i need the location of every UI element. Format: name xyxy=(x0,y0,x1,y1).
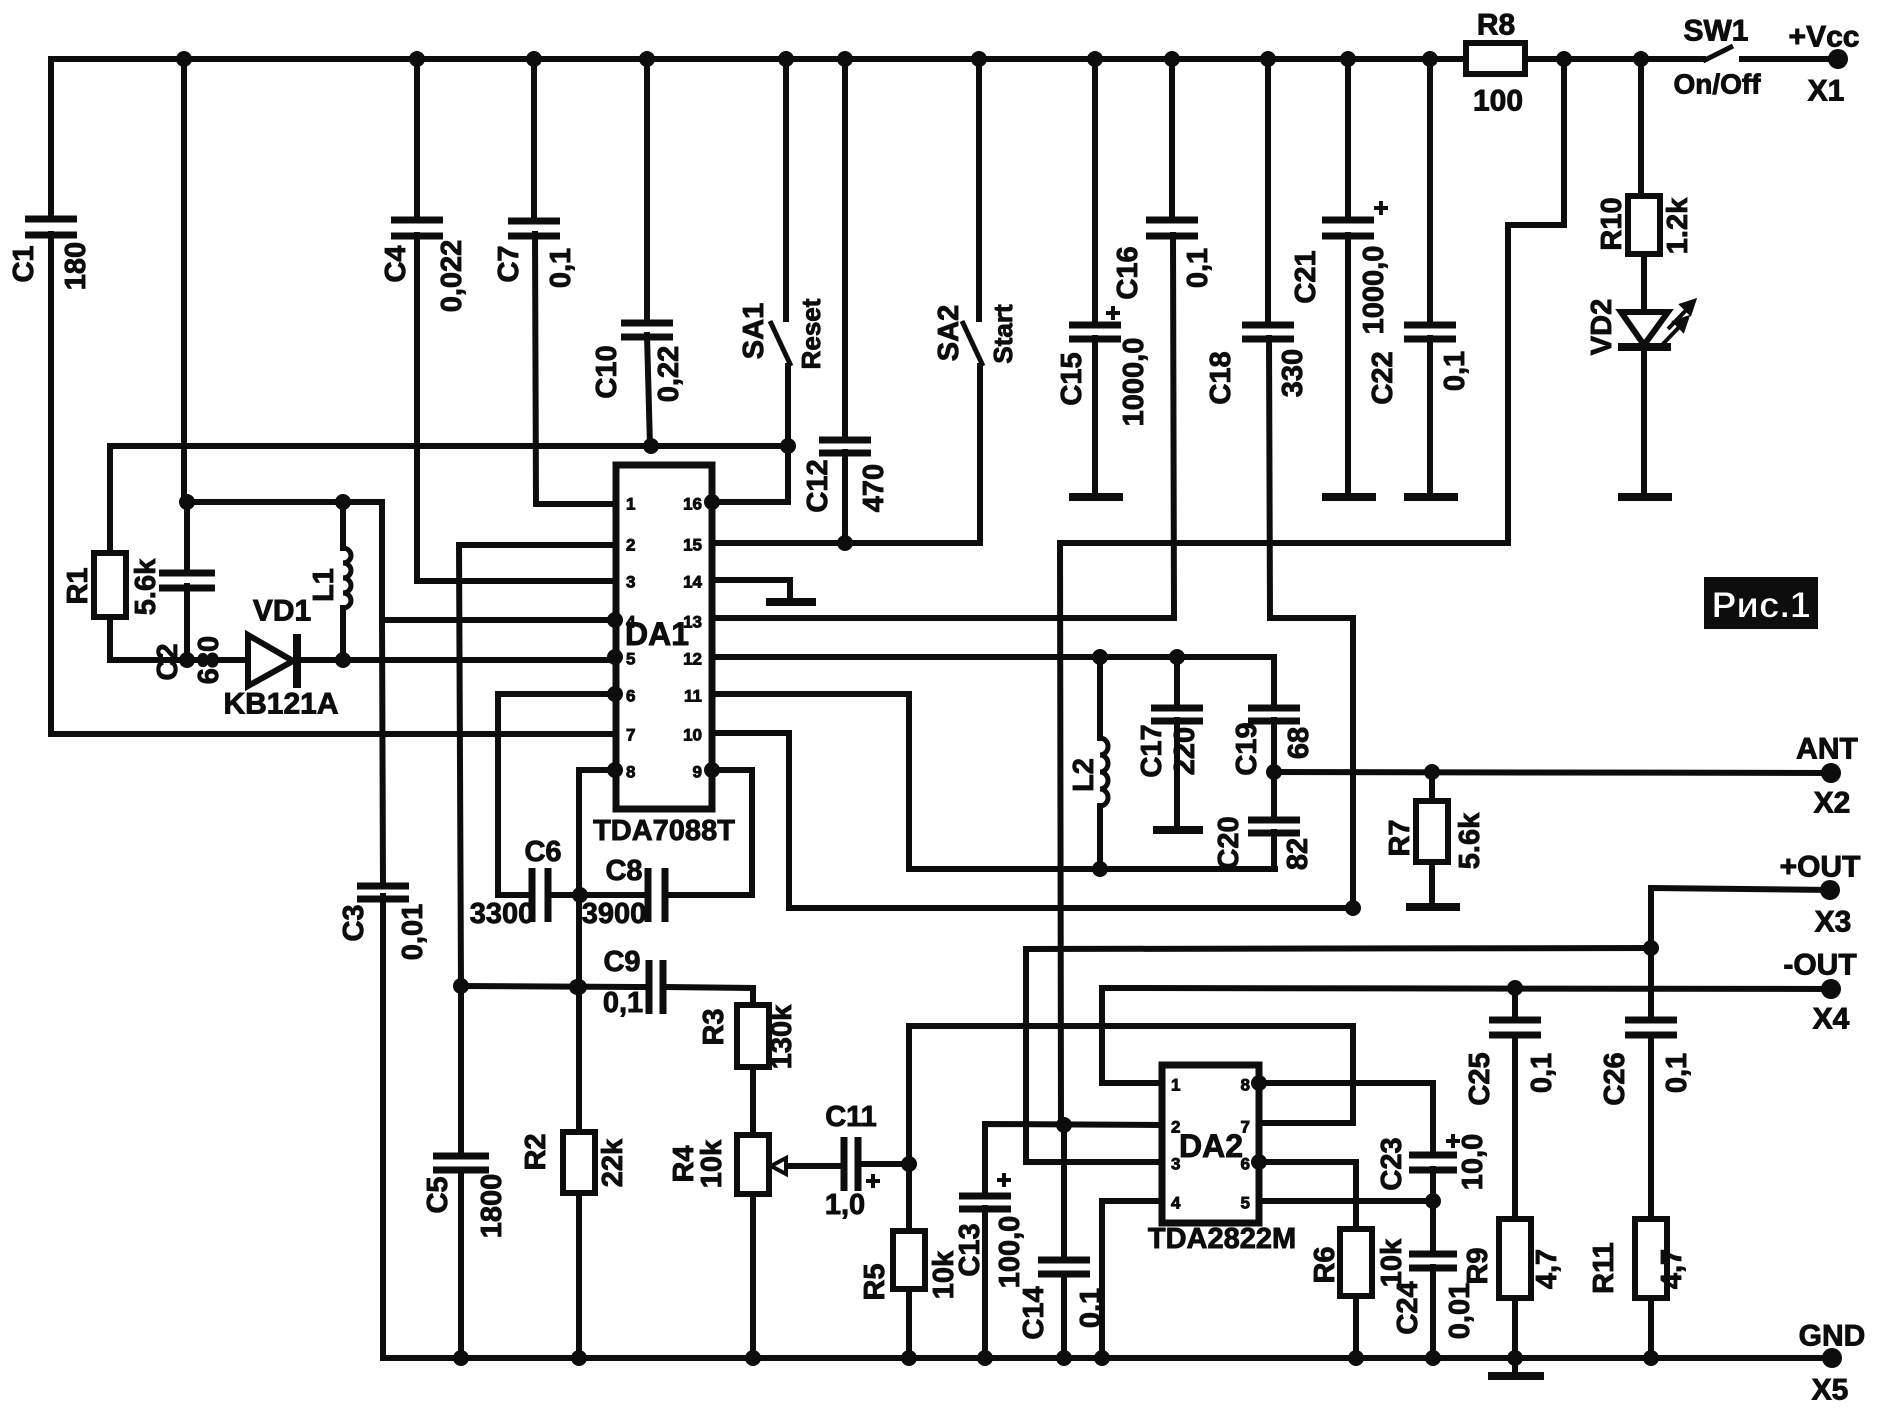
svg-text:R11: R11 xyxy=(1588,1242,1620,1294)
svg-text:1: 1 xyxy=(626,495,635,514)
capacitor C2 xyxy=(159,573,215,588)
resistor R2 xyxy=(563,1132,595,1193)
wire C20 leads xyxy=(1271,772,1277,818)
svg-text:4,7: 4,7 xyxy=(1656,1249,1688,1289)
svg-text:C21: C21 xyxy=(1290,250,1322,303)
svg-text:0,1: 0,1 xyxy=(1182,248,1214,288)
wire R5 top lead xyxy=(906,1164,912,1231)
svg-text:TDA7088T: TDA7088T xyxy=(593,815,735,847)
wire C12 column top xyxy=(842,59,848,440)
svg-text:0,1: 0,1 xyxy=(1526,1053,1558,1093)
wire C14 column xyxy=(1061,1125,1067,1258)
svg-text:ANT: ANT xyxy=(1796,733,1858,766)
wire VD1 row left xyxy=(110,657,247,663)
svg-text:C3: C3 xyxy=(338,904,370,941)
resistor R7 xyxy=(1416,801,1448,862)
wire C12 bottom lead xyxy=(842,452,848,543)
svg-text:14: 14 xyxy=(683,573,702,592)
C17 ground bar xyxy=(1153,826,1203,834)
svg-text:5.6k: 5.6k xyxy=(130,558,162,615)
wire C1 column bottom to pin7 line xyxy=(51,234,615,734)
svg-text:0,1: 0,1 xyxy=(1075,1288,1107,1328)
resistor R8 xyxy=(1466,43,1525,74)
wire C14 bottom lead xyxy=(1061,1274,1067,1358)
op-amp/IC DA1 TDA7088T xyxy=(616,465,712,809)
wire R7 bottom lead xyxy=(1429,862,1435,907)
wire C25 top lead xyxy=(1512,988,1518,1018)
wire C13 bottom lead xyxy=(982,1208,988,1358)
wire DA1 pin15 to SA2 bottom xyxy=(712,366,980,543)
capacitor C5 xyxy=(433,1156,489,1170)
svg-text:0,01: 0,01 xyxy=(1444,1283,1476,1339)
resistor R3 xyxy=(737,1005,769,1067)
svg-text:SA2: SA2 xyxy=(933,305,965,361)
wire C24 bottom lead xyxy=(1430,1267,1436,1358)
resistor R6 xyxy=(1340,1229,1372,1296)
capacitor C26 xyxy=(1625,1020,1677,1035)
wire L1 bottom lead xyxy=(340,608,346,660)
wire DA2 pin1 to -OUT xyxy=(1102,988,1831,1083)
svg-text:11: 11 xyxy=(684,687,702,706)
wire ANT row xyxy=(1274,772,1831,773)
wire C5 bottom lead xyxy=(458,1170,464,1358)
svg-text:C26: C26 xyxy=(1599,1052,1631,1105)
wire C8 to pin9 riser xyxy=(667,770,752,895)
svg-text:0,1: 0,1 xyxy=(545,248,577,288)
svg-text:C25: C25 xyxy=(1464,1052,1496,1105)
svg-text:330: 330 xyxy=(1277,349,1309,397)
wire SA2 column top xyxy=(976,59,982,319)
switch SA1 lever xyxy=(770,321,791,366)
wire C9 to R3 xyxy=(666,987,753,1005)
wire DA1 pin2 column xyxy=(459,545,615,986)
svg-text:VD2: VD2 xyxy=(1586,299,1618,355)
svg-text:3: 3 xyxy=(1171,1155,1180,1174)
svg-text:3900: 3900 xyxy=(582,898,647,930)
wire R8 output jog xyxy=(1060,59,1564,1124)
svg-text:C14: C14 xyxy=(1018,1286,1050,1339)
svg-text:-OUT: -OUT xyxy=(1783,949,1856,982)
capacitor C20 xyxy=(1248,820,1300,833)
svg-text:5: 5 xyxy=(1241,1194,1250,1213)
capacitor C22 xyxy=(1404,325,1456,339)
wire C15 column bottom xyxy=(1092,338,1098,497)
svg-text:X2: X2 xyxy=(1814,787,1851,820)
C22 ground bar xyxy=(1404,493,1458,501)
svg-text:22k: 22k xyxy=(597,1138,629,1187)
wire R2 bottom lead xyxy=(576,1193,582,1358)
svg-text:X3: X3 xyxy=(1815,906,1852,939)
switch SA2 lever xyxy=(962,321,983,366)
svg-text:SA1: SA1 xyxy=(738,303,770,359)
svg-text:C24: C24 xyxy=(1392,1281,1424,1334)
svg-text:R2: R2 xyxy=(520,1133,552,1170)
svg-text:R1: R1 xyxy=(62,567,94,604)
wire DA1 pin6 elbow xyxy=(498,694,615,895)
svg-text:TDA2822M: TDA2822M xyxy=(1148,1223,1296,1255)
wire C17 bottom lead xyxy=(1174,720,1180,830)
wire R6 bottom lead xyxy=(1353,1296,1359,1358)
svg-text:10: 10 xyxy=(683,726,702,745)
svg-text:R8: R8 xyxy=(1477,9,1515,42)
capacitor C12 xyxy=(819,440,871,453)
svg-text:C11: C11 xyxy=(825,1101,877,1133)
resistor R9 xyxy=(1499,1219,1531,1298)
wire top rail switch to X1 xyxy=(1742,56,1838,62)
svg-text:7: 7 xyxy=(626,726,635,745)
wire C2 node to L1 top and riser xyxy=(187,502,382,620)
wire C11 to R5 node xyxy=(861,1161,909,1167)
svg-text:1.2k: 1.2k xyxy=(1662,197,1694,254)
capacitor C15 xyxy=(1069,325,1121,339)
svg-text:4: 4 xyxy=(626,613,636,632)
capacitor C24 xyxy=(1409,1254,1457,1268)
wire L1 top lead xyxy=(340,502,346,548)
wire C26 top lead xyxy=(1648,948,1654,1018)
svg-text:C13: C13 xyxy=(954,1223,986,1276)
capacitor C7 xyxy=(508,221,560,236)
wire C2 top lead xyxy=(184,502,190,571)
svg-text:C5: C5 xyxy=(422,1176,454,1213)
svg-text:100,0: 100,0 xyxy=(994,1216,1026,1289)
svg-text:680: 680 xyxy=(193,636,225,684)
svg-text:C8: C8 xyxy=(605,855,642,887)
svg-text:7: 7 xyxy=(1241,1118,1250,1137)
wire R2 top lead xyxy=(576,987,582,1132)
wire R10 top lead xyxy=(1638,59,1644,194)
wire DA1 pin12 tank row xyxy=(712,657,1274,706)
inductor L1 xyxy=(343,548,351,608)
wire +OUT stub xyxy=(1651,888,1830,948)
svg-text:R9: R9 xyxy=(1462,1247,1494,1284)
svg-text:1: 1 xyxy=(1171,1076,1180,1095)
resistor R1 xyxy=(94,553,126,617)
wire R7 top lead xyxy=(1429,772,1435,801)
R7 ground bar xyxy=(1406,903,1460,911)
svg-text:C19: C19 xyxy=(1231,722,1263,775)
capacitor C1 xyxy=(25,219,77,235)
svg-text:X1: X1 xyxy=(1808,75,1845,108)
svg-text:68: 68 xyxy=(1283,727,1315,759)
wire C10 column bottom xyxy=(647,335,650,446)
wire R1 bottom lead xyxy=(107,617,113,660)
svg-text:6: 6 xyxy=(626,687,635,706)
wire C18 column to corner xyxy=(1269,338,1353,908)
resistor R5 xyxy=(893,1231,925,1289)
wire C3 column xyxy=(382,620,383,884)
svg-text:+OUT: +OUT xyxy=(1780,851,1861,884)
svg-text:5: 5 xyxy=(626,650,635,669)
svg-text:0,1: 0,1 xyxy=(603,987,643,1019)
wire R11 bottom lead xyxy=(1648,1298,1654,1358)
wire R1 top node to SA1/C10 node xyxy=(110,446,788,553)
svg-text:C16: C16 xyxy=(1112,246,1144,299)
wire bottom GND rail xyxy=(383,1355,1832,1361)
svg-text:L1: L1 xyxy=(308,568,340,602)
wire DA1 pin8 column xyxy=(579,770,615,987)
svg-text:0,01: 0,01 xyxy=(397,904,429,960)
capacitor C25 xyxy=(1489,1020,1541,1035)
wire C21 column bottom xyxy=(1345,235,1351,497)
C21 ground bar xyxy=(1322,493,1376,501)
wire L2 bottom lead xyxy=(1097,806,1103,869)
svg-text:C10: C10 xyxy=(591,345,623,398)
wire C15 column top xyxy=(1092,59,1098,325)
svg-text:4,7: 4,7 xyxy=(1531,1249,1563,1289)
wire pin16 riser xyxy=(712,446,788,502)
svg-text:100: 100 xyxy=(1473,85,1523,118)
capacitor C21 xyxy=(1322,220,1374,236)
svg-text:Рис.1: Рис.1 xyxy=(1712,585,1811,626)
svg-text:10,0: 10,0 xyxy=(1457,1134,1489,1190)
svg-text:10k: 10k xyxy=(1376,1238,1408,1287)
wire DA2 pin4 to rail xyxy=(1102,1201,1162,1358)
inductor L2 xyxy=(1100,738,1108,806)
wire C16 column top xyxy=(1169,59,1175,218)
svg-text:R6: R6 xyxy=(1309,1246,1341,1283)
capacitor C10 xyxy=(621,323,673,337)
wire C25 to R9 xyxy=(1512,1035,1518,1219)
svg-text:C7: C7 xyxy=(493,245,525,282)
wire R9 bottom lead xyxy=(1512,1298,1518,1358)
svg-text:C1: C1 xyxy=(8,245,40,282)
wire L2 top lead xyxy=(1097,657,1103,738)
wire R3 to R4 xyxy=(750,1067,756,1135)
capacitor C18 xyxy=(1242,325,1294,339)
svg-text:0,22: 0,22 xyxy=(653,346,685,402)
wire DA1 pin11 route xyxy=(712,694,1275,869)
svg-text:X5: X5 xyxy=(1812,1374,1849,1407)
svg-text:6: 6 xyxy=(1241,1155,1250,1174)
C15 ground bar xyxy=(1069,493,1123,501)
wire C3 to bottom rail xyxy=(380,896,386,1358)
svg-text:15: 15 xyxy=(683,536,702,555)
wire DA2 pin2 row xyxy=(985,1124,1162,1194)
svg-text:1800: 1800 xyxy=(476,1174,508,1239)
svg-text:220: 220 xyxy=(1169,727,1201,775)
svg-text:12: 12 xyxy=(683,650,702,669)
DA1 pin14 ground stub bar xyxy=(766,598,816,606)
wire VD2 cathode lead xyxy=(1641,348,1647,497)
svg-text:0,1: 0,1 xyxy=(1661,1053,1693,1093)
wire C21 column top xyxy=(1345,59,1351,218)
svg-text:1,0: 1,0 xyxy=(825,1189,865,1221)
svg-text:C22: C22 xyxy=(1367,351,1399,404)
LED VD2 xyxy=(1618,312,1671,347)
svg-text:X4: X4 xyxy=(1813,1003,1850,1036)
capacitor C17 xyxy=(1151,708,1203,721)
VD2 ground bar xyxy=(1618,493,1672,501)
wire DA2 pin5 row xyxy=(1259,1198,1433,1204)
capacitor C3 xyxy=(357,886,409,899)
svg-text:3: 3 xyxy=(626,573,635,592)
svg-text:KB121A: KB121A xyxy=(223,688,338,721)
capacitor C9 xyxy=(649,960,663,1014)
svg-text:C17: C17 xyxy=(1136,724,1168,777)
wire volume node to DA2 pin7 xyxy=(909,1026,1353,1164)
wire C22 column top xyxy=(1427,59,1433,325)
svg-text:1000,0: 1000,0 xyxy=(1358,246,1390,335)
wire DA2 pin6 to R6 xyxy=(1259,1162,1356,1229)
svg-text:C9: C9 xyxy=(603,946,640,978)
svg-text:8: 8 xyxy=(1241,1076,1250,1095)
IC DA2 TDA2822M xyxy=(1162,1065,1259,1223)
svg-text:Start: Start xyxy=(988,304,1018,364)
svg-text:+Vcc: +Vcc xyxy=(1789,21,1860,54)
svg-text:130k: 130k xyxy=(766,1004,798,1069)
wire C16 column to DA1 pin13 xyxy=(712,235,1174,618)
svg-text:82: 82 xyxy=(1282,838,1314,870)
wire top rail R8 to switch xyxy=(1525,56,1703,62)
wire C7 column top xyxy=(531,59,537,220)
junction dots xyxy=(176,51,192,67)
svg-text:2: 2 xyxy=(626,536,635,555)
figure badge Ris.1 xyxy=(1704,577,1818,629)
svg-text:L2: L2 xyxy=(1068,758,1100,792)
diode VD1 KB121A xyxy=(248,634,297,688)
svg-text:On/Off: On/Off xyxy=(1673,69,1761,100)
svg-text:5.6k: 5.6k xyxy=(1454,812,1486,869)
wire R9 ground stub xyxy=(1512,1358,1518,1374)
svg-text:2: 2 xyxy=(1171,1118,1180,1137)
svg-text:16: 16 xyxy=(683,495,702,514)
wire C9 row left xyxy=(461,986,646,987)
wire DA2 pin8 to C23 xyxy=(1259,1083,1433,1153)
svg-text:C2: C2 xyxy=(152,643,184,680)
svg-text:C23: C23 xyxy=(1376,1137,1408,1190)
capacitor C4 xyxy=(391,220,443,236)
svg-text:R3: R3 xyxy=(698,1008,730,1045)
svg-text:SW1: SW1 xyxy=(1683,15,1748,48)
svg-text:C6: C6 xyxy=(524,836,561,868)
svg-text:0,022: 0,022 xyxy=(436,240,468,313)
svg-text:R7: R7 xyxy=(1384,819,1416,856)
svg-text:C4: C4 xyxy=(380,245,412,282)
wire C20 bottom lead xyxy=(1271,832,1277,869)
svg-text:VD1: VD1 xyxy=(253,595,311,628)
wire C7 column to DA1 pin1 xyxy=(535,234,615,504)
wire C5 top lead xyxy=(458,986,464,1154)
capacitor C19 xyxy=(1248,708,1300,721)
svg-text:DA2: DA2 xyxy=(1179,1128,1243,1164)
wire SA1 column top xyxy=(783,59,789,319)
wire C26 to R11 xyxy=(1648,1035,1654,1219)
svg-text:R5: R5 xyxy=(859,1263,891,1300)
svg-text:10k: 10k xyxy=(696,1139,728,1188)
svg-text:180: 180 xyxy=(60,242,92,290)
wire VD1 row right to DA1 pin5 xyxy=(301,657,615,663)
wire C4 column to DA1 pin3 xyxy=(417,235,615,581)
svg-text:0,1: 0,1 xyxy=(1439,351,1471,391)
wire C22 column bottom xyxy=(1427,338,1433,497)
capacitor C11 xyxy=(844,1137,858,1191)
svg-text:C15: C15 xyxy=(1056,352,1088,405)
svg-text:Reset: Reset xyxy=(796,298,826,369)
wire R4 bottom lead xyxy=(750,1194,756,1358)
wire DA2 pin3 to +OUT feeder xyxy=(1026,948,1651,1162)
svg-text:470: 470 xyxy=(858,464,890,512)
wire rail to C2 top node xyxy=(181,59,187,502)
capacitor C8 xyxy=(648,868,665,922)
wire C19 bottom lead xyxy=(1271,720,1277,772)
wire top +Vcc rail left of R8 xyxy=(51,56,1466,62)
svg-text:13: 13 xyxy=(683,613,702,632)
wire C23 to C24 node xyxy=(1430,1169,1436,1252)
svg-text:4: 4 xyxy=(1171,1194,1181,1213)
resistor R4 (potentiometer) xyxy=(737,1135,769,1194)
svg-text:9: 9 xyxy=(693,763,702,782)
svg-text:1000,0: 1000,0 xyxy=(1118,338,1150,427)
R9 ground bar below rail xyxy=(1488,1372,1544,1380)
wire C10 column top xyxy=(644,59,650,322)
svg-text:8: 8 xyxy=(626,763,635,782)
resistor R11 xyxy=(1635,1219,1667,1298)
capacitor C14 xyxy=(1038,1260,1090,1274)
wire C4 column top xyxy=(414,59,420,218)
switch SW1 lever xyxy=(1703,46,1733,61)
capacitor C13 xyxy=(959,1196,1011,1209)
wire C6 to C8 link xyxy=(549,892,645,898)
wire C1 column top xyxy=(48,59,54,217)
capacitor C16 xyxy=(1146,220,1198,236)
capacitor C6 xyxy=(532,868,548,922)
wire DA1 pin10 route xyxy=(712,733,1353,908)
wire C18 column top xyxy=(1265,59,1271,325)
svg-text:C18: C18 xyxy=(1205,351,1237,404)
wire R5 bottom lead xyxy=(906,1289,912,1358)
svg-text:3300: 3300 xyxy=(470,898,535,930)
svg-text:R10: R10 xyxy=(1596,197,1628,250)
potentiometer R4 wiper arrow xyxy=(771,1158,786,1174)
svg-text:C12: C12 xyxy=(802,459,834,512)
wire R10 to VD2 xyxy=(1641,254,1647,311)
svg-text:C20: C20 xyxy=(1213,816,1245,869)
resistor R10 xyxy=(1628,196,1660,254)
wire riser to DA1 pin4 xyxy=(382,617,615,623)
wire C2 bottom lead xyxy=(184,586,190,660)
capacitor C23 xyxy=(1409,1155,1457,1170)
wire C17 top lead xyxy=(1174,657,1180,706)
wire R4 wiper to C11 xyxy=(787,1163,841,1169)
wire DA1 pin14 stub xyxy=(712,580,790,600)
svg-text:GND: GND xyxy=(1799,1320,1866,1353)
wire SA1 bottom to pin16 node xyxy=(785,366,791,446)
